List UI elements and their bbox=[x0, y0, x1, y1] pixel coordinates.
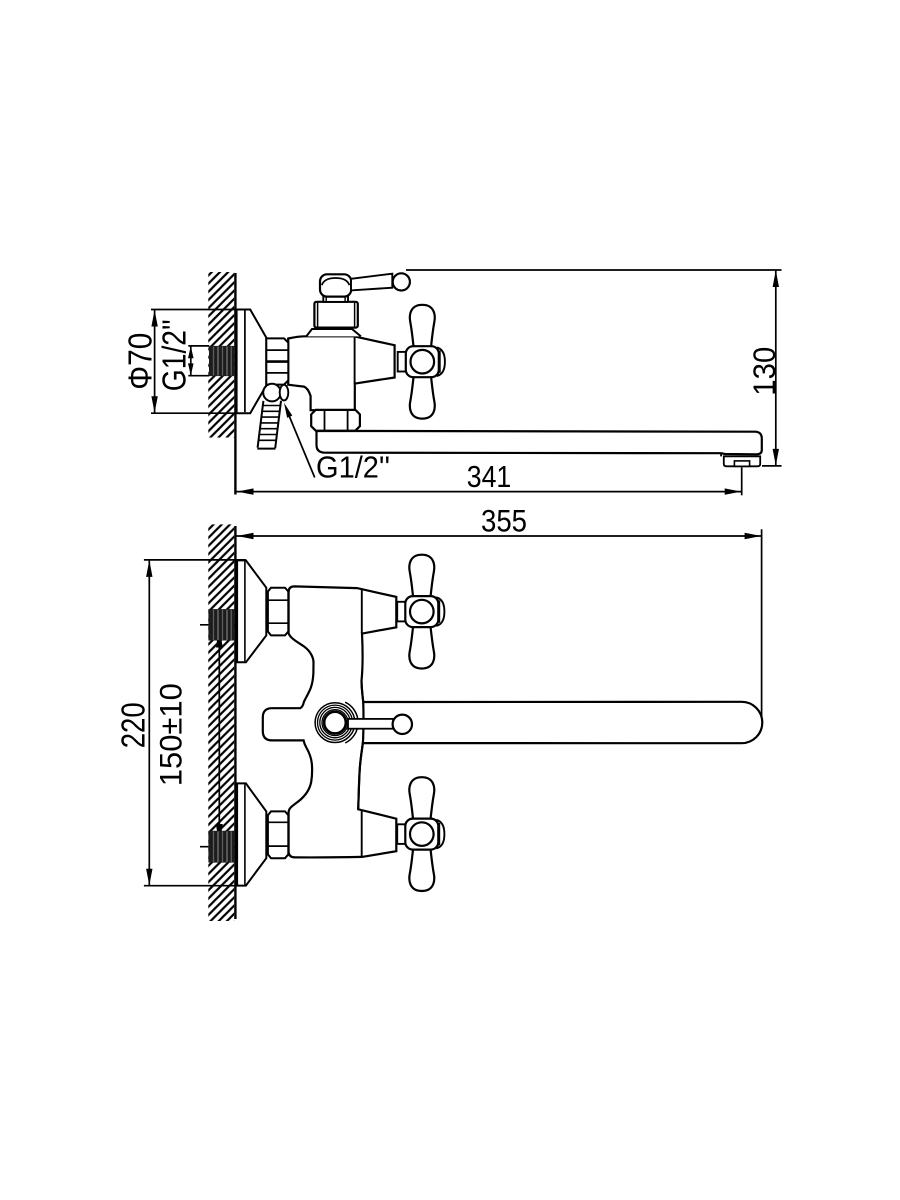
cross handle bottom (bottom view) bbox=[397, 777, 444, 891]
faucet body (bottom view) bbox=[263, 586, 397, 857]
wall face line (top view) bbox=[234, 273, 236, 495]
dim 220 extension top bbox=[144, 559, 246, 561]
wall union nut (top view) bbox=[266, 338, 288, 384]
dim G1/2 arrows bbox=[190, 346, 192, 376]
aerator inner ring bbox=[734, 461, 749, 466]
dim 150+-10 line bbox=[218, 625, 220, 847]
svg-text:G1/2'': G1/2'' bbox=[155, 319, 192, 391]
leader arrow for G1/2 spout label bbox=[284, 403, 292, 418]
wall face line (bottom view) bbox=[234, 526, 236, 919]
diverter lever rod (bottom view) bbox=[348, 719, 393, 729]
diverter lever ball (bottom view) bbox=[393, 715, 412, 734]
body joint line bbox=[354, 336, 356, 383]
lever ball bbox=[393, 273, 410, 290]
eccentric hex union bottom bbox=[268, 811, 288, 858]
wall hatching (top view) bbox=[208, 272, 234, 438]
wall thread block top (bottom view) bbox=[208, 609, 234, 640]
svg-text:130: 130 bbox=[746, 347, 782, 396]
svg-text:G1/2'': G1/2'' bbox=[316, 450, 390, 484]
escutcheon bottom (bottom view) bbox=[237, 783, 266, 885]
spout union nut (top view) bbox=[311, 410, 360, 431]
dim 130 line bbox=[775, 270, 777, 466]
diverter bonnet skirt bbox=[306, 329, 361, 336]
svg-text:150±10: 150±10 bbox=[152, 683, 188, 786]
escutcheon top (bottom view) bbox=[237, 560, 266, 662]
aerator housing bbox=[724, 456, 760, 466]
eccentric hex union top bbox=[268, 588, 288, 636]
body column edge over spout bbox=[358, 681, 363, 809]
dim 150+-10 extension top bbox=[200, 624, 237, 626]
cross handle top (bottom view) bbox=[397, 555, 444, 669]
dim 130 extension bottom (from spout tip) bbox=[762, 465, 782, 467]
diverter rings (bottom view) bbox=[345, 702, 358, 743]
spout step to aerator bbox=[720, 453, 722, 456]
wall hatching (bottom view) bbox=[208, 524, 234, 921]
svg-text:220: 220 bbox=[115, 702, 152, 748]
lever rod bbox=[351, 274, 392, 291]
wall thread block bottom (bottom view) bbox=[208, 831, 234, 863]
spout (top view, long outlet tube) bbox=[317, 431, 762, 454]
escutcheon flange (top view) bbox=[237, 310, 267, 414]
dim 355 line bbox=[237, 535, 762, 537]
svg-text:355: 355 bbox=[481, 503, 527, 539]
svg-text:Φ70: Φ70 bbox=[122, 333, 159, 390]
svg-text:341: 341 bbox=[467, 460, 512, 494]
dim Phi70 line bbox=[154, 310, 156, 414]
dim G1/2 (wall thread) extension lines bbox=[188, 345, 209, 347]
wall thread block (top view, G1/2 nipple) bbox=[209, 346, 234, 376]
dim Phi70 extension bottom bbox=[151, 412, 250, 414]
diverter neck bbox=[323, 296, 348, 302]
diverter bonnet bbox=[314, 302, 357, 328]
faucet body (top view) bbox=[288, 336, 394, 410]
body joint lines (bottom view) bbox=[361, 588, 363, 633]
hose barb outlet bbox=[257, 401, 281, 449]
dim 220 line bbox=[148, 560, 150, 886]
shower hose elbow circles bbox=[263, 384, 281, 402]
dim 355 extension right (links to bottom view spout end) bbox=[761, 529, 763, 718]
dim 341 line bbox=[237, 491, 742, 493]
dim Phi70 extension top bbox=[151, 309, 250, 311]
dim 150+-10 extension bottom bbox=[200, 846, 237, 848]
lever knob bbox=[320, 274, 351, 296]
dim 341 extension right bbox=[741, 467, 743, 495]
dim 220 extension bottom bbox=[144, 885, 246, 887]
cross handle (top view) bbox=[398, 305, 445, 419]
dim 130 extension top (from lever ball) bbox=[406, 269, 782, 271]
spout bar outline bbox=[363, 702, 762, 743]
spout bar (bottom view) fill bbox=[364, 702, 763, 743]
